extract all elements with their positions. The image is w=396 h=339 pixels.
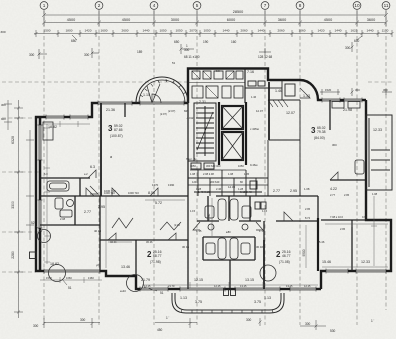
svg-text:120: 120	[192, 180, 197, 184]
svg-text:1170: 1170	[382, 29, 389, 33]
svg-text:1800: 1800	[66, 29, 73, 33]
svg-text:13.15: 13.15	[286, 284, 293, 288]
svg-text:3: 3	[311, 126, 316, 135]
svg-text:300: 300	[0, 30, 5, 34]
svg-text:(5.46: (5.46	[318, 240, 325, 244]
svg-text:12.15: 12.15	[194, 278, 203, 282]
svg-text:с 405м: с 405м	[250, 127, 259, 131]
svg-text:1050: 1050	[204, 29, 211, 33]
svg-text:9.3: 9.3	[216, 69, 220, 73]
svg-text:300: 300	[29, 53, 35, 57]
svg-text:1.13: 1.13	[303, 94, 310, 98]
svg-text:36 46: 36 46	[146, 240, 153, 244]
svg-text:300: 300	[305, 322, 311, 326]
svg-text:12.33: 12.33	[361, 260, 370, 264]
svg-text:300: 300	[355, 88, 360, 92]
svg-text:1500: 1500	[44, 29, 51, 33]
svg-text:2600: 2600	[122, 29, 129, 33]
svg-text:3.75: 3.75	[195, 300, 202, 304]
svg-text:12.15: 12.15	[304, 284, 311, 288]
svg-text:1050: 1050	[238, 164, 244, 168]
svg-text:6.3: 6.3	[90, 165, 95, 169]
svg-text:18.82: 18.82	[48, 125, 57, 129]
svg-text:28500: 28500	[233, 10, 244, 14]
svg-text:21.79: 21.79	[141, 278, 150, 282]
svg-text:4.22: 4.22	[330, 187, 337, 191]
svg-text:14.38: 14.38	[228, 185, 235, 189]
svg-text:13.15: 13.15	[240, 284, 247, 288]
svg-text:300: 300	[332, 143, 337, 147]
svg-text:3.75: 3.75	[254, 300, 261, 304]
svg-text:1: 1	[186, 44, 188, 48]
svg-text:300 640 320: 300 640 320	[206, 164, 221, 168]
svg-text:1.08: 1.08	[190, 172, 196, 176]
svg-text:11: 11	[384, 3, 389, 8]
svg-text:1440: 1440	[367, 29, 374, 33]
svg-text:(2.07): (2.07)	[168, 109, 175, 113]
svg-text:1050: 1050	[160, 29, 167, 33]
svg-text:40 44: 40 44	[110, 240, 117, 244]
svg-text:2.95: 2.95	[344, 193, 350, 197]
svg-text:1060: 1060	[299, 29, 306, 33]
svg-text:7: 7	[264, 3, 267, 8]
svg-text:1.46: 1.46	[275, 89, 282, 93]
svg-text:1370: 1370	[152, 183, 159, 187]
svg-text:2060: 2060	[278, 29, 285, 33]
svg-text:300 640: 300 640	[210, 180, 220, 184]
svg-text:6.3: 6.3	[44, 172, 48, 176]
svg-text:1.08: 1.08	[228, 172, 234, 176]
svg-text:1050: 1050	[190, 164, 196, 168]
svg-text:а 2: а 2	[84, 172, 88, 176]
svg-text:1360: 1360	[88, 276, 94, 280]
svg-text:1.15: 1.15	[196, 229, 202, 233]
svg-text:300: 300	[1, 103, 6, 107]
svg-text:1.08: 1.08	[372, 192, 378, 196]
svg-text:845: 845	[184, 109, 189, 113]
svg-text:8.55: 8.55	[148, 191, 155, 195]
svg-text:300: 300	[345, 46, 351, 50]
svg-text:4500: 4500	[324, 18, 332, 22]
svg-text:1440: 1440	[258, 29, 265, 33]
svg-text:3000: 3000	[171, 18, 179, 22]
svg-text:1440: 1440	[335, 29, 342, 33]
svg-text:1.15: 1.15	[262, 209, 268, 213]
svg-text:1440: 1440	[223, 29, 230, 33]
svg-text:2: 2	[98, 3, 101, 8]
svg-text:4500: 4500	[122, 18, 130, 22]
svg-text:1440: 1440	[143, 29, 150, 33]
svg-text:1.15: 1.15	[143, 93, 150, 97]
svg-text:68 11 х100: 68 11 х100	[184, 55, 200, 59]
svg-text:1.48 3.15: 1.48 3.15	[198, 190, 210, 194]
svg-text:2.95: 2.95	[98, 205, 105, 209]
svg-text:1050: 1050	[176, 29, 183, 33]
svg-text:1660: 1660	[66, 276, 72, 280]
svg-text:2.31: 2.31	[199, 100, 206, 104]
svg-text:1.08: 1.08	[304, 187, 310, 191]
svg-text:920: 920	[1, 117, 6, 121]
svg-text:2.77: 2.77	[84, 210, 91, 214]
svg-text:1.46: 1.46	[251, 95, 257, 99]
svg-text:2.46: 2.46	[216, 187, 222, 191]
svg-text:12.07: 12.07	[256, 109, 263, 113]
svg-text:300: 300	[383, 88, 388, 92]
svg-text:1570: 1570	[46, 276, 52, 280]
svg-text:(71.98): (71.98)	[150, 260, 161, 264]
svg-text:ж80: ж80	[226, 230, 231, 234]
svg-text:530: 530	[330, 329, 336, 333]
svg-text:1.13: 1.13	[180, 296, 187, 300]
svg-text:300: 300	[80, 318, 86, 322]
svg-text:18.82: 18.82	[50, 262, 59, 266]
svg-text:1420: 1420	[85, 29, 92, 33]
svg-text:3600: 3600	[278, 18, 286, 22]
svg-text:5180: 5180	[207, 213, 211, 220]
svg-text:10: 10	[354, 3, 360, 8]
svg-text:(2.07): (2.07)	[160, 112, 167, 116]
svg-text:2.08 2.08: 2.08 2.08	[203, 172, 214, 176]
svg-text:51: 51	[68, 286, 72, 290]
svg-text:eu40: eu40	[120, 289, 126, 293]
svg-text:1000 710: 1000 710	[128, 191, 139, 195]
svg-text:2070: 2070	[190, 29, 197, 33]
svg-text:2280: 2280	[11, 251, 15, 259]
svg-text:300: 300	[246, 318, 252, 322]
svg-text:0.94: 0.94	[362, 215, 368, 219]
svg-text:30 46: 30 46	[182, 245, 189, 249]
svg-text:52: 52	[31, 221, 35, 225]
svg-text:1.13: 1.13	[264, 296, 271, 300]
svg-text:6000: 6000	[227, 18, 235, 22]
svg-text:21.79: 21.79	[168, 284, 175, 288]
svg-text:300: 300	[184, 48, 190, 52]
svg-text:(84.00): (84.00)	[314, 136, 325, 140]
svg-text:12.07: 12.07	[286, 111, 295, 115]
svg-text:-1.012: -1.012	[186, 116, 194, 120]
svg-text:12.33: 12.33	[373, 128, 382, 132]
svg-text:87.65: 87.65	[114, 128, 123, 132]
svg-text:9.46м: 9.46м	[250, 163, 257, 167]
svg-text:2.77: 2.77	[273, 189, 280, 193]
svg-text:79.38: 79.38	[317, 130, 326, 134]
svg-text:4500: 4500	[67, 18, 75, 22]
svg-text:(71.08): (71.08)	[279, 260, 290, 264]
svg-text:2.95: 2.95	[305, 207, 311, 211]
svg-text:8.72: 8.72	[305, 216, 311, 220]
svg-text:190: 190	[203, 40, 209, 44]
svg-text:300: 300	[84, 53, 90, 57]
svg-text:2.08: 2.08	[60, 217, 66, 221]
svg-text:160: 160	[231, 40, 237, 44]
svg-text:40 44: 40 44	[94, 229, 101, 233]
svg-text:9500: 9500	[302, 249, 306, 256]
svg-text:450: 450	[157, 328, 163, 332]
svg-text:46.77: 46.77	[282, 254, 291, 258]
svg-text:15.46: 15.46	[322, 260, 331, 264]
svg-text:2.95: 2.95	[340, 227, 346, 231]
svg-text:2060: 2060	[241, 29, 248, 33]
svg-text:1 ': 1 '	[371, 319, 375, 323]
svg-text:(2.46: (2.46	[174, 223, 180, 227]
svg-text:2.77: 2.77	[330, 193, 336, 197]
svg-text:30 46: 30 46	[256, 245, 263, 249]
svg-text:а: а	[110, 155, 112, 159]
svg-text:6320: 6320	[11, 136, 15, 144]
svg-text:2.95: 2.95	[290, 189, 297, 193]
svg-text:2: 2	[147, 250, 152, 259]
svg-text:1390: 1390	[168, 183, 175, 187]
svg-text:1: 1	[43, 3, 46, 8]
svg-text:7.08 и 10.6: 7.08 и 10.6	[330, 215, 344, 219]
svg-text:1420: 1420	[318, 29, 325, 33]
svg-text:51: 51	[160, 291, 164, 295]
svg-text:12.15: 12.15	[144, 284, 151, 288]
svg-text:1600: 1600	[101, 29, 108, 33]
svg-text:68.77: 68.77	[153, 254, 162, 258]
svg-text:7.16: 7.16	[247, 70, 254, 74]
svg-text:4: 4	[153, 3, 156, 8]
svg-text:1000 710: 1000 710	[104, 191, 115, 195]
svg-text:13.15: 13.15	[245, 278, 254, 282]
svg-text:2: 2	[276, 250, 281, 259]
svg-text:650: 650	[71, 39, 77, 43]
svg-text:3300: 3300	[11, 201, 15, 209]
svg-text:189: 189	[137, 50, 143, 54]
svg-text:21.36: 21.36	[106, 108, 115, 112]
svg-text:1625: 1625	[351, 29, 358, 33]
svg-text:1 ': 1 '	[166, 316, 170, 320]
svg-text:12.15: 12.15	[214, 284, 221, 288]
svg-text:5.72: 5.72	[155, 201, 162, 205]
svg-text:300: 300	[33, 324, 39, 328]
svg-text:21.98: 21.98	[343, 108, 352, 112]
svg-text:5: 5	[196, 3, 199, 8]
svg-text:1520: 1520	[325, 88, 332, 92]
svg-text:13.46: 13.46	[121, 265, 130, 269]
svg-text:3600: 3600	[367, 18, 375, 22]
svg-text:1.15: 1.15	[190, 209, 196, 213]
svg-text:3.15 2.48: 3.15 2.48	[240, 190, 252, 194]
svg-text:650: 650	[174, 40, 180, 44]
svg-text:8: 8	[299, 3, 302, 8]
svg-text:1.15: 1.15	[259, 229, 265, 233]
svg-text:3: 3	[108, 124, 113, 133]
svg-text:650: 650	[354, 39, 360, 43]
svg-text:(100.87): (100.87)	[110, 134, 123, 138]
svg-text:1.05: 1.05	[244, 172, 250, 176]
